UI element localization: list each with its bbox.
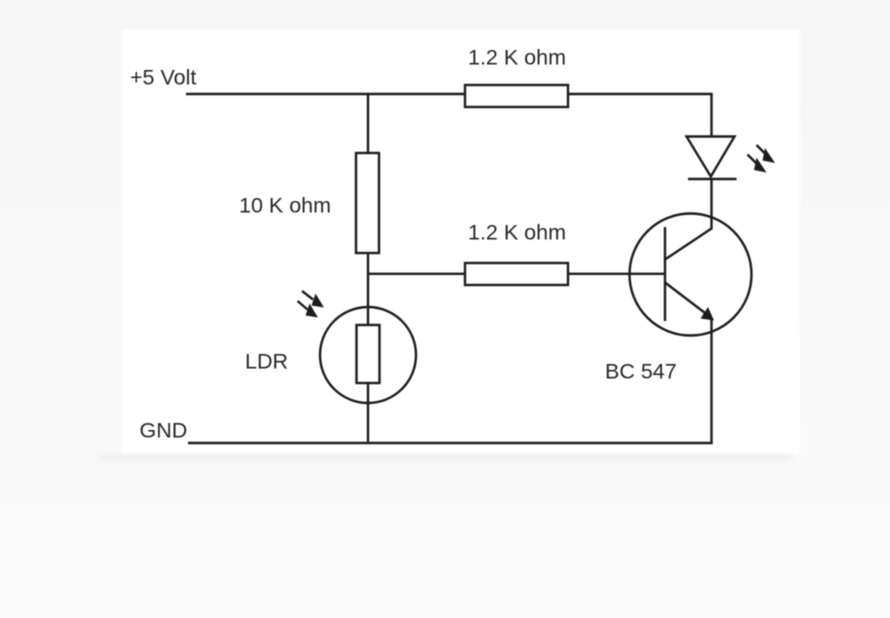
resistor R1 1.2 K ohm (top) [465, 46, 568, 108]
svg-text:BC 547: BC 547 [605, 360, 677, 384]
svg-text:1.2 K ohm: 1.2 K ohm [468, 46, 566, 70]
wire emitter down [710, 320, 712, 445]
wire divider top (rail to 10K) [367, 94, 369, 153]
svg-text:GND: GND [140, 419, 188, 443]
svg-text:10 K ohm: 10 K ohm [239, 194, 331, 218]
scan shadow band below GND rail [98, 454, 792, 461]
LDR light arrow 1 [302, 291, 324, 308]
wire divider mid (10K to LDR) [367, 253, 369, 326]
wire LED anode drop [710, 94, 712, 138]
LED light arrow 1 [757, 145, 776, 163]
wire base rail right [568, 273, 665, 275]
svg-text:+5 Volt: +5 Volt [130, 66, 196, 90]
wire GND rail [188, 442, 713, 444]
LDR light arrow 2 [298, 301, 319, 318]
LED D1 [687, 137, 737, 180]
resistor R2 10 K ohm [239, 153, 379, 253]
scanned picture white area [122, 30, 800, 455]
LED light arrow 2 [748, 155, 767, 173]
svg-text:LDR: LDR [245, 350, 288, 374]
svg-text:1.2 K ohm: 1.2 K ohm [468, 221, 566, 245]
wire base rail left [368, 273, 465, 275]
wire LDR bottom [367, 383, 369, 444]
transistor Q1 BC 547 [605, 214, 752, 384]
LDR [245, 307, 416, 403]
resistor R3 1.2 K ohm (base) [465, 221, 568, 286]
wire LED cathode to collector [710, 179, 712, 230]
wire +5V rail right segment [568, 93, 713, 95]
wire +5V rail left segment [186, 93, 465, 95]
